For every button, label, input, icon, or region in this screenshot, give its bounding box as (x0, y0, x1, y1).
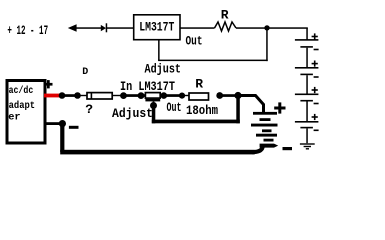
svg-text:D: D (82, 67, 88, 78)
svg-text:?: ? (85, 102, 93, 117)
svg-text:Out: Out (186, 34, 203, 49)
svg-text:adapt: adapt (9, 100, 35, 112)
svg-text:Adjust: Adjust (112, 106, 153, 121)
svg-text:LM317T: LM317T (139, 19, 174, 34)
svg-text:Adjust: Adjust (145, 62, 182, 77)
svg-text:R: R (221, 7, 229, 22)
svg-text:+ 12 - 17: + 12 - 17 (7, 23, 48, 38)
svg-text:ac/dc: ac/dc (9, 85, 34, 97)
svg-text:R: R (195, 77, 203, 92)
svg-text:Out: Out (167, 100, 182, 115)
svg-text:er: er (8, 111, 20, 123)
svg-text:In LM317T: In LM317T (120, 79, 175, 94)
svg-text:18ohm: 18ohm (186, 103, 218, 118)
